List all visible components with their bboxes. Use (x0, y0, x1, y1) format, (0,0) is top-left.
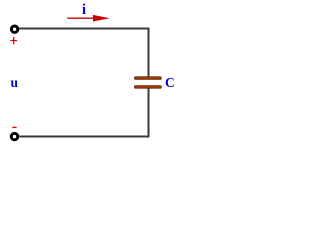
svg-text:C: C (165, 75, 175, 90)
svg-text:u: u (10, 75, 18, 90)
svg-text:i: i (82, 2, 86, 18)
